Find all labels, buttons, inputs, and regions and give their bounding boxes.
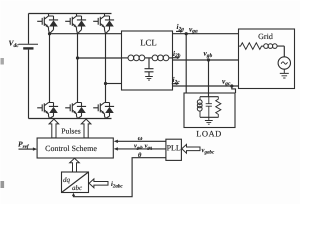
Grid box <box>239 29 295 89</box>
svg-text:ω: ω <box>138 135 143 142</box>
arrow dq/abc to Control Scheme <box>70 158 80 172</box>
resistor Rload <box>216 97 221 118</box>
svg-text:Pulses: Pulses <box>61 126 80 135</box>
wire: grid line c <box>173 85 239 87</box>
node: background <box>1 1 301 205</box>
wire: grid line b <box>173 59 239 61</box>
wire: leg 3 vertical <box>105 34 107 103</box>
node: phase b tap <box>76 56 79 59</box>
Q1 emitter arrow <box>45 24 48 28</box>
svg-text:LOAD: LOAD <box>196 129 222 139</box>
wire: LCL chain lead-in <box>122 57 129 59</box>
svg-text:dq: dq <box>63 176 71 184</box>
battery positive plate <box>19 43 39 45</box>
arrow omega (PLL to control) <box>117 140 166 142</box>
arrow Pref input <box>19 148 35 150</box>
arrow i2c <box>172 83 178 85</box>
diode D5 (antiparallel, Q5) <box>77 107 86 113</box>
arrow vgd vgq (PLL to control) <box>117 148 166 150</box>
wire: phase c to LCL <box>106 83 122 85</box>
wire: load top rail <box>200 96 219 98</box>
Q4 emitter arrow <box>45 111 48 115</box>
arrow i2a <box>176 30 182 32</box>
wire: grid line a <box>173 33 239 35</box>
wire: leg 1 vertical <box>49 34 51 103</box>
transistor Q2 (top IGBT leg 2) <box>65 14 86 34</box>
gate pulse arrow 1 <box>49 119 59 138</box>
wire: phase b to LCL <box>78 57 122 59</box>
wire: load bottom rail <box>200 116 219 118</box>
svg-text:Control Scheme: Control Scheme <box>45 144 97 153</box>
svg-text:Grid: Grid <box>258 32 273 41</box>
wire: phase a to LCL <box>50 33 122 35</box>
diode D4 (antiparallel, Q4) <box>49 107 58 113</box>
transistor Q4 (bottom IGBT leg 1) <box>37 103 58 119</box>
Q5 emitter arrow <box>73 111 76 115</box>
diode D6 (antiparallel, Q6) <box>105 107 114 113</box>
Control Scheme box <box>37 138 113 158</box>
wire: vgc drop to load <box>232 86 236 93</box>
capacitor Cload <box>206 97 212 118</box>
node vga <box>185 32 188 35</box>
inductor Lg (grid) <box>264 44 269 49</box>
resistor Rg (grid) <box>239 43 264 50</box>
transistor Q6 (bottom IGBT leg 3) <box>93 103 114 119</box>
Q6 emitter arrow <box>101 111 104 115</box>
wire theta (PLL to dq/abc) <box>74 158 166 197</box>
PLL box <box>166 139 182 160</box>
ground (LCL) <box>145 77 153 81</box>
input arrow i2abc (into dq/abc) <box>89 179 108 188</box>
node vgb <box>207 58 210 61</box>
svg-text:PLL: PLL <box>167 143 181 152</box>
wire: vgb drop to load <box>208 60 210 97</box>
inductor L1 (LCL) <box>128 55 134 61</box>
battery negative plate <box>23 47 33 49</box>
inductor L2 (LCL) <box>152 55 158 61</box>
wire: top DC rail <box>29 13 112 15</box>
wire: left rail upper <box>28 14 30 44</box>
ground (load) <box>205 117 213 124</box>
LOAD box <box>184 93 235 128</box>
Q3 emitter arrow <box>101 24 104 28</box>
gate pulse arrow 2 <box>81 119 91 138</box>
node: phase a tap <box>48 32 51 35</box>
arrow theta head <box>72 193 75 196</box>
wire: LCL chain lead-out <box>169 57 173 59</box>
ground (grid) <box>280 69 289 78</box>
svg-text:abc: abc <box>72 184 83 192</box>
diode D2 (antiparallel, Q2) <box>77 20 86 26</box>
transistor Q5 (bottom IGBT leg 2) <box>65 103 86 119</box>
transistor Q3 (top IGBT leg 3) <box>93 14 114 34</box>
input arrow vgabc (into PLL) <box>182 144 200 153</box>
wire: vga drop to load <box>185 34 187 93</box>
transistor Q1 (top IGBT leg 1) <box>37 14 58 34</box>
svg-text:LCL: LCL <box>140 38 157 48</box>
wire: left rail lower <box>28 50 30 119</box>
AC source (grid) <box>278 57 290 69</box>
inductor Lload <box>199 97 201 118</box>
capacitor Cf (LCL) <box>145 58 154 77</box>
LCL filter box <box>122 31 173 90</box>
node vgc <box>230 84 233 87</box>
wire: bottom DC rail <box>29 118 112 120</box>
edge artifact lower-left <box>1 181 5 188</box>
edge artifact upper-left <box>1 58 4 65</box>
diode D1 (antiparallel, Q1) <box>49 20 58 26</box>
Q2 emitter arrow <box>73 24 76 28</box>
diode D3 (antiparallel, Q3) <box>105 20 114 26</box>
arrow i2b <box>173 57 179 59</box>
wire: leg 2 vertical <box>77 34 79 103</box>
wire: grid source link <box>277 46 284 57</box>
wire: LCL mid node <box>145 57 152 59</box>
node: phase c tap <box>104 82 107 85</box>
dq/abc block <box>62 172 89 193</box>
